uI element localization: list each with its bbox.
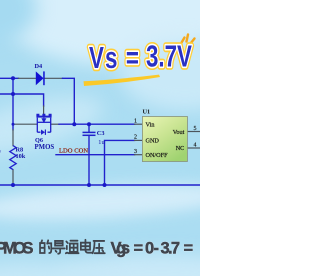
background light blob top center [0, 0, 240, 65]
background light right-mid [120, 40, 250, 110]
svg-text:U1: U1 [143, 109, 151, 116]
svg-text:GND: GND [146, 137, 160, 144]
background light band bottom sweep [0, 178, 236, 226]
wire top net y78 blue left part [0, 77, 19, 79]
background light sweep bottom right [55, 254, 270, 276]
svg-text:=: = [134, 240, 144, 258]
wire left rail x13 [12, 78, 14, 130]
node dot GND/bottom (104,185) [103, 183, 107, 187]
svg-text:2: 2 [134, 135, 137, 141]
node dot C3/rail (89,124) [87, 122, 91, 126]
U1 pin1 stub (gray) [135, 123, 143, 125]
Q6 body diode [41, 130, 46, 135]
sparkle [181, 35, 195, 44]
svg-text:D4: D4 [35, 63, 44, 70]
resistor R8 zigzag [10, 146, 16, 170]
transistor Q6 PMOS body [36, 114, 51, 133]
labels [0, 63, 105, 160]
inner bar [37, 121, 50, 123]
svg-text:C3: C3 [97, 130, 105, 137]
glyph 的 [40, 240, 51, 253]
transistor Q6 left pin stub (gray) [13, 123, 37, 125]
background light bottom-left corner [0, 262, 115, 276]
svg-text:ON/OFF: ON/OFF [146, 152, 169, 159]
svg-text:4: 4 [194, 143, 197, 149]
diode D4 cathode pin stub (gray) [44, 77, 62, 79]
crown tabs [38, 114, 50, 116]
Q6 arrow [42, 118, 45, 123]
transistor Q6 right pin stub (gray) [51, 123, 59, 125]
svg-text:5: 5 [194, 126, 197, 132]
crown bar [36, 116, 51, 118]
wire main rail y124 to U1 pin1 [59, 123, 135, 125]
background light band mid-left [0, 86, 108, 165]
capacitor C3 bottom wire to rail [88, 136, 90, 185]
svg-text:Vs =: Vs = [89, 40, 140, 74]
node B dot (13,94) [11, 92, 15, 96]
svg-text:1: 1 [134, 118, 137, 124]
svg-text:3.7V: 3.7V [146, 39, 192, 73]
wire gate net y94 [0, 94, 44, 106]
U1 pin2 stub (gray) [135, 139, 143, 141]
node dot C3/bottom (89,185) [87, 183, 91, 187]
svg-text:Vout: Vout [173, 129, 185, 136]
title underline swoosh [84, 75, 161, 86]
node A dot (13,78) [11, 76, 15, 80]
resistor R8 bottom pin stub (gray) [12, 170, 14, 185]
svg-text:=: = [184, 240, 194, 258]
wire GND net pin2 [105, 140, 135, 185]
diode D4 body [36, 71, 45, 85]
svg-text:-: - [154, 240, 160, 258]
svg-text:Q6: Q6 [35, 137, 43, 144]
wire from D4 cathode to corner [63, 78, 75, 124]
glyph 导 [53, 241, 65, 254]
glyph 压 [93, 241, 105, 253]
caption CJK glyphs hand-drawn [40, 240, 105, 254]
bottom bracket with body diode [37, 131, 50, 133]
resistor R8 top pin stub (gray) [12, 130, 14, 146]
title text [89, 39, 192, 75]
diode D4 anode pin stub (gray) [19, 77, 36, 79]
svg-text:NC: NC [176, 145, 185, 152]
pedestal verticals [37, 118, 50, 133]
wire bottom rail y185 [0, 184, 200, 186]
IC U1 (LDO regulator) box [142, 117, 187, 162]
svg-text:10k: 10k [16, 153, 26, 160]
capacitor C3 plates [83, 132, 96, 135]
capacitor C3 top stub [88, 124, 90, 131]
U1 pin3 stub (gray) [135, 154, 143, 156]
svg-text:Vgs: Vgs [111, 240, 131, 258]
svg-text:PMOS: PMOS [0, 240, 34, 258]
glyph 电 [81, 240, 92, 253]
svg-text:Vin: Vin [146, 121, 155, 128]
svg-text:3.7: 3.7 [161, 240, 181, 258]
svg-text:y: y [0, 149, 2, 156]
svg-text:3: 3 [134, 149, 137, 155]
U1 pin texts [146, 121, 185, 159]
wire LDO_CON net pin3 [56, 154, 135, 156]
U1 pin4 stub (gray) [187, 147, 200, 149]
background medium wedge top-left corner [0, 0, 37, 44]
U1 pin5 stub (gray) [187, 131, 200, 133]
node dot rail/Q6 left (13,124) [12, 123, 15, 126]
transistor Q6 gate pin stub (gray) [43, 106, 45, 114]
node dot D4/rail (74,124) [72, 122, 76, 126]
svg-text:LDO CON: LDO CON [59, 148, 88, 155]
node dot R8/bottom (13,185) [11, 183, 15, 187]
svg-text:PMOS: PMOS [35, 144, 55, 151]
svg-text:1u: 1u [98, 139, 105, 146]
glyph 通 [66, 241, 79, 254]
